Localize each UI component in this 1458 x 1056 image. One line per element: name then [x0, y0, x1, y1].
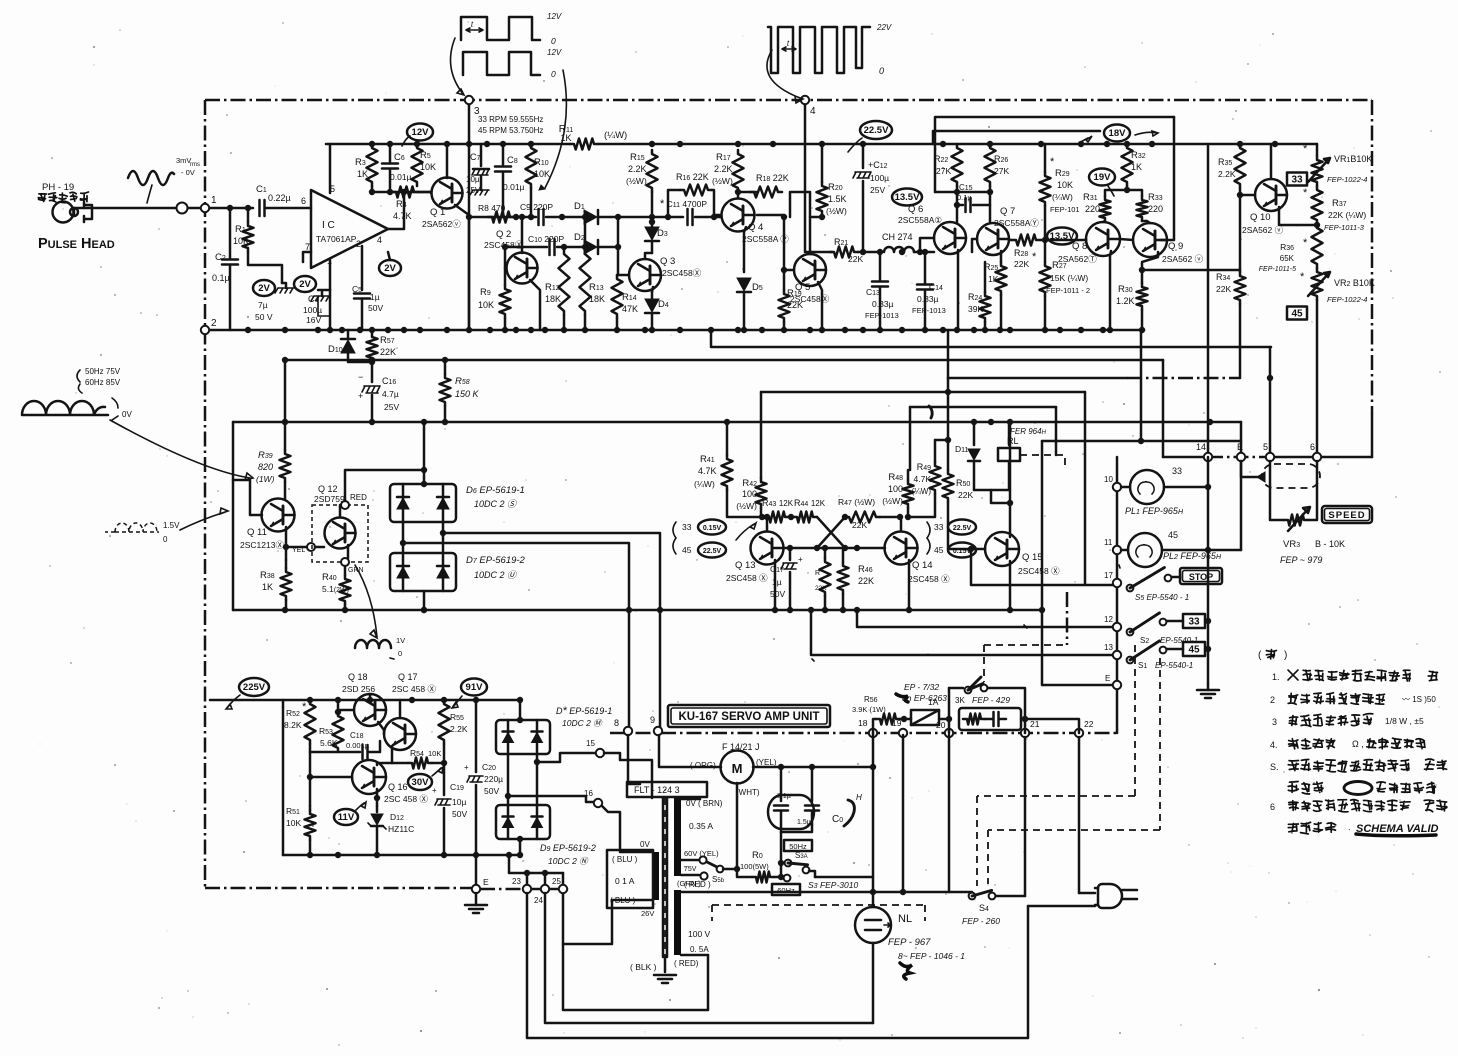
svg-text:12V: 12V [412, 127, 430, 138]
svg-text:+: + [358, 391, 363, 401]
potentiometer VR2 [1300, 268, 1375, 304]
wire co bottom [781, 825, 812, 832]
capacitor C8 [495, 144, 525, 217]
mains plug [1079, 884, 1137, 908]
wire node3 drop [468, 100, 471, 330]
svg-text:33: 33 [682, 522, 692, 532]
transformer primary winding [653, 852, 659, 900]
svg-text:FEP-1013: FEP-1013 [865, 311, 899, 320]
svg-text:SPEED: SPEED [1328, 510, 1365, 521]
wire bus y422 [233, 419, 1241, 425]
svg-text:22K (¼W): 22K (¼W) [1328, 210, 1366, 220]
transformer secondary1 winding [674, 798, 681, 876]
node 5 [1263, 442, 1274, 461]
svg-text:(¼W): (¼W) [1052, 192, 1073, 202]
svg-text:12V: 12V [547, 48, 562, 57]
svg-text:*: * [1300, 271, 1305, 283]
text PULSE HEAD [38, 236, 115, 252]
svg-text:2.2K: 2.2K [714, 164, 733, 174]
svg-text:PULSE HEAD: PULSE HEAD [38, 236, 115, 252]
wire IC output [388, 189, 407, 229]
resistor Ro [737, 850, 784, 883]
svg-text:100µ: 100µ [870, 173, 889, 183]
svg-text:*: * [1032, 251, 1037, 263]
svg-text:2SD 256: 2SD 256 [342, 684, 375, 694]
wire Q14 wiring [884, 517, 909, 610]
wire row2 [505, 214, 621, 275]
svg-text:FEP-1022-4: FEP-1022-4 [1327, 295, 1367, 304]
svg-text:R: R [815, 570, 820, 577]
wire chain-line right border [1371, 100, 1374, 457]
svg-text:60Hz: 60Hz [777, 886, 795, 895]
text S3 FEP-3010 [808, 880, 858, 890]
svg-text:TA7061AP: TA7061AP [316, 234, 357, 244]
wire NL bottom [872, 943, 875, 1023]
resistor R16 [665, 172, 714, 220]
svg-text:D* EP-5619-1: D* EP-5619-1 [556, 705, 612, 717]
svg-text:2.2K: 2.2K [1218, 169, 1236, 179]
resistor R1 [233, 205, 254, 252]
svg-text:220: 220 [1085, 204, 1100, 214]
svg-text:R16 22K: R16 22K [676, 172, 709, 182]
wire plug bottom [1028, 905, 1095, 908]
wire D6-D7 links [400, 522, 446, 613]
svg-text:Q 4: Q 4 [748, 222, 763, 233]
text note 1 [1272, 670, 1438, 682]
svg-text:45: 45 [1291, 309, 1303, 320]
capacitor C5 [352, 284, 383, 330]
wire y585 to node17 [971, 549, 1117, 585]
capacitor C19 electrolytic [432, 763, 467, 855]
svg-text:(½W): (½W) [626, 176, 647, 186]
diode D4 [645, 292, 669, 330]
svg-text:C9 220P: C9 220P [520, 202, 553, 212]
diode D10 [328, 330, 372, 362]
svg-text:(YEL): (YEL) [756, 758, 777, 767]
svg-text:25V: 25V [384, 402, 399, 412]
svg-text:Q 5: Q 5 [795, 282, 810, 293]
svg-text:4.: 4. [1270, 740, 1278, 750]
wire y873 link [509, 855, 563, 884]
svg-text:F 14/21 J: F 14/21 J [722, 742, 760, 752]
wire node row y457 [1163, 456, 1372, 459]
wire R39 to Q11 [284, 482, 287, 499]
svg-text:10K: 10K [534, 169, 550, 179]
bridge rectifier D8 [496, 700, 612, 754]
svg-text:65K: 65K [1280, 254, 1295, 263]
svg-text:0V: 0V [122, 410, 132, 419]
wire Q4 wiring [711, 189, 746, 272]
resistor R37 [1303, 186, 1366, 232]
resistor R19 [779, 214, 804, 330]
wire relay feed [974, 422, 1009, 445]
waveform pulse comb [768, 23, 892, 76]
svg-text:1µ: 1µ [772, 577, 782, 587]
svg-text:0. 5A: 0. 5A [690, 945, 709, 954]
svg-text:0.1µ: 0.1µ [212, 273, 230, 283]
wire S3 out [815, 876, 873, 879]
diode D5 [737, 278, 763, 330]
wire bottom rail of amp section [205, 329, 1144, 332]
svg-text:KU-167 SERVO AMP UNIT: KU-167 SERVO AMP UNIT [678, 711, 819, 723]
svg-text:C18: C18 [350, 731, 364, 740]
diode D1 [559, 201, 598, 224]
svg-text:R56: R56 [864, 695, 878, 704]
svg-text:Q 2: Q 2 [496, 229, 511, 240]
diode D11 [955, 444, 980, 490]
svg-text:〰 1S )50: 〰 1S )50 [1402, 695, 1436, 704]
svg-text:14: 14 [1196, 442, 1206, 452]
svg-text:Q 18: Q 18 [348, 672, 368, 682]
svg-text:R43 12K: R43 12K [762, 498, 794, 508]
transistor Q7 [977, 206, 1039, 255]
wire Q16 wiring [310, 760, 447, 806]
wire cap col to Ro [780, 863, 783, 877]
svg-text:3: 3 [1272, 717, 1277, 727]
wire primary taps [563, 852, 653, 944]
resistor R47 [838, 497, 903, 530]
svg-text:13.5V: 13.5V [895, 192, 920, 203]
capacitor C20 electrolytic [464, 700, 503, 855]
svg-text:39K: 39K [968, 304, 983, 314]
svg-text:Q 1: Q 1 [430, 207, 445, 218]
svg-text:18K: 18K [589, 294, 605, 304]
svg-text:24: 24 [534, 896, 543, 905]
svg-text:22.5V: 22.5V [864, 125, 889, 136]
capacitor C4 [303, 290, 330, 330]
boxed STOP [1180, 568, 1222, 584]
wire R3/C6/R5 bottoms [369, 186, 431, 195]
svg-text:−: − [358, 372, 363, 382]
lamp PL2 [1121, 530, 1241, 567]
node E bottom [1105, 674, 1121, 689]
svg-text:(WHT): (WHT) [736, 788, 760, 797]
wire right vertical x1174 [1160, 117, 1174, 240]
svg-text:E: E [1237, 442, 1243, 452]
svg-text:- 0V: - 0V [181, 168, 195, 177]
capacitor Co [768, 767, 843, 866]
node 12 [1104, 615, 1121, 631]
wire node23 drop [527, 893, 1028, 1038]
svg-text:FEP - 260: FEP - 260 [962, 916, 1000, 926]
svg-text:C10 220P: C10 220P [528, 234, 564, 244]
svg-text:150 K: 150 K [455, 389, 480, 399]
resistor R51 [286, 806, 316, 855]
node 16 [584, 789, 602, 807]
wire IC pin1 down [329, 260, 332, 290]
wire x1241 from E [1240, 461, 1243, 550]
resistor R34 [1216, 268, 1246, 378]
svg-text:2SC458 Ⓧ: 2SC458 Ⓧ [726, 573, 768, 583]
bridge rectifier D7 [390, 553, 526, 591]
svg-text:SCHEMA VALID: SCHEMA VALID [1356, 823, 1439, 835]
svg-text:( BLU ): ( BLU ) [612, 855, 638, 864]
wire Q1-e junction down [468, 215, 471, 330]
svg-text:1/8 W , ±5: 1/8 W , ±5 [1385, 716, 1424, 726]
text note 5 [1270, 759, 1447, 772]
boxed 33 [1287, 173, 1307, 186]
node 1 [201, 195, 217, 212]
wire Q14 base row [817, 545, 884, 551]
svg-text:12: 12 [1104, 615, 1113, 624]
motor M [690, 742, 777, 797]
svg-text:1.5V: 1.5V [163, 521, 180, 530]
capacitor C6 [382, 144, 412, 192]
svg-text:Q 7: Q 7 [1000, 206, 1015, 217]
transistor Q9 [1133, 223, 1204, 264]
svg-text:25: 25 [552, 877, 561, 886]
svg-text:2V: 2V [299, 279, 311, 290]
capacitor C12 electrolytic [853, 144, 889, 252]
wire Q15 wiring [985, 422, 1010, 610]
svg-text:100 V: 100 V [688, 929, 711, 939]
svg-text:22K: 22K [958, 490, 973, 500]
svg-text:(1W): (1W) [256, 474, 275, 484]
resistor R5 [412, 144, 437, 186]
wire Q18/Q17 wiring [335, 694, 400, 763]
svg-text:FEP-101: FEP-101 [1050, 205, 1080, 214]
node open circle [177, 203, 188, 214]
svg-text:0.1µ: 0.1µ [957, 193, 972, 202]
capacitor C13 [865, 249, 899, 330]
svg-text:R44 12K: R44 12K [794, 498, 826, 508]
svg-text:FEP-1011-5: FEP-1011-5 [1259, 266, 1296, 273]
svg-text:E: E [483, 877, 489, 887]
pulse head PH-19 [42, 182, 92, 223]
svg-text:45 RPM 53.750Hz: 45 RPM 53.750Hz [478, 126, 543, 135]
wire node16 to primary [602, 806, 652, 851]
svg-text:2.2K: 2.2K [450, 724, 468, 734]
node 4 [801, 96, 816, 117]
wire VR2 down to node6 [1316, 300, 1319, 457]
svg-text:25V: 25V [466, 186, 481, 195]
svg-text:18K: 18K [545, 294, 561, 304]
svg-text:VR2 B10K: VR2 B10K [1334, 278, 1375, 288]
voltage oval 2V a [253, 280, 275, 296]
svg-text:2SC558A Ⓟ: 2SC558A Ⓟ [742, 234, 789, 244]
resistor R30 [1116, 283, 1148, 330]
wire chain-line top border [205, 99, 1372, 102]
svg-text:17: 17 [1104, 571, 1113, 580]
transistor Q12 [314, 484, 356, 549]
wire x910 drop [909, 407, 912, 470]
transistor Q4 [722, 199, 790, 245]
wire y441 link [1042, 422, 1241, 457]
wire D6 out y533 [443, 533, 660, 610]
svg-text:45: 45 [682, 545, 692, 555]
svg-text:2SC558A①: 2SC558A① [898, 215, 942, 225]
wire x1207 ground drop [1207, 457, 1210, 684]
svg-text:100(5W): 100(5W) [740, 862, 769, 871]
svg-text:33: 33 [934, 522, 944, 532]
svg-text:1K: 1K [988, 274, 999, 284]
svg-text:7µ: 7µ [258, 300, 268, 310]
node 14 [1196, 442, 1212, 461]
node 9 [650, 715, 662, 735]
svg-text:PL2 FEP-965H: PL2 FEP-965H [1163, 551, 1222, 561]
transformer secondary2 winding [674, 890, 681, 955]
svg-text:(¼W): (¼W) [694, 479, 715, 489]
svg-text:FEP-1013: FEP-1013 [912, 306, 946, 315]
wire x1270 drop [1267, 347, 1273, 457]
svg-text:22: 22 [1084, 719, 1094, 729]
wire connector stub [1241, 461, 1265, 482]
wire IC pin2 down [361, 246, 364, 290]
resistor R57 [367, 333, 397, 365]
voltage oval 11V [334, 802, 366, 825]
resistor R46 [838, 548, 849, 610]
speckle marks [390, 406, 1120, 661]
wire Q1 base [430, 192, 433, 193]
svg-text:100µ: 100µ [303, 305, 322, 315]
svg-text:33: 33 [1172, 466, 1182, 476]
svg-text:Q 16: Q 16 [388, 782, 408, 792]
svg-text:50Hz 75V: 50Hz 75V [85, 367, 121, 376]
svg-text:6: 6 [1310, 442, 1315, 452]
capacitor C10 [528, 234, 564, 255]
svg-text:45: 45 [1188, 645, 1200, 656]
svg-text:Q 14: Q 14 [912, 560, 933, 571]
svg-text:10K: 10K [420, 162, 436, 172]
diode D2 [574, 232, 598, 254]
text notes header [1258, 650, 1287, 661]
wire x948 riser [947, 330, 950, 378]
voltage oval 225V [226, 678, 269, 709]
svg-text:60Hz 85V: 60Hz 85V [85, 378, 121, 387]
svg-text:0.15V: 0.15V [703, 525, 722, 532]
text pulse head katakana [38, 192, 88, 203]
wire D9 to node16 [505, 793, 594, 802]
voltage oval 12V [402, 124, 433, 147]
node 11 [1104, 538, 1121, 554]
svg-text:5: 5 [1263, 442, 1268, 452]
text note 4 [1270, 738, 1425, 750]
resistor R8 [478, 203, 519, 223]
svg-text:820: 820 [258, 462, 273, 472]
resistor R50 [943, 378, 986, 552]
svg-text:NL: NL [898, 913, 912, 925]
resistor R53 [319, 700, 344, 752]
node 8 [614, 718, 632, 735]
svg-text:10: 10 [1104, 475, 1113, 484]
capacitor C16 electrolytic [358, 362, 399, 422]
svg-text:0: 0 [398, 649, 402, 658]
svg-text:22K: 22K [848, 254, 863, 264]
resistor R9 [478, 268, 511, 330]
resistor R22 [934, 144, 963, 186]
svg-text:8.2K: 8.2K [284, 720, 302, 730]
wire IC pin7 stub [303, 252, 311, 262]
capacitor C1 [256, 184, 291, 216]
svg-text:1V: 1V [396, 636, 405, 645]
wire humps to Q11 curve [110, 420, 253, 480]
resistor R24 [968, 262, 991, 330]
svg-text:FLT - 124 3: FLT - 124 3 [634, 785, 680, 795]
voltage oval 30V [408, 767, 443, 790]
svg-text:S.: S. [1270, 762, 1279, 772]
resistor R45 [815, 545, 831, 610]
node 6 [1310, 442, 1321, 461]
svg-text:50V: 50V [368, 303, 383, 313]
resistor R21 [830, 237, 880, 264]
svg-text:6: 6 [301, 196, 306, 206]
wire node4 drop [805, 100, 832, 252]
svg-text:0V: 0V [640, 840, 650, 849]
voltage oval 2V c [379, 252, 401, 276]
capacitor C14 [912, 249, 946, 330]
svg-text:YEL: YEL [292, 547, 305, 554]
svg-text:8~ FEP - 1046 - 1: 8~ FEP - 1046 - 1 [898, 951, 965, 961]
svg-text:22K: 22K [815, 585, 827, 592]
wire Q3 wiring [617, 253, 653, 292]
svg-text:8: 8 [614, 718, 619, 728]
svg-text:2.2K: 2.2K [628, 164, 647, 174]
wire D8-D9 mid links [508, 754, 537, 805]
wire Q1 collector up [446, 144, 449, 178]
wire Q11 wiring [233, 480, 289, 560]
svg-text:75V: 75V [684, 866, 697, 873]
text note 6 [1270, 800, 1447, 812]
svg-text:S5 EP-5540 - 1: S5 EP-5540 - 1 [1135, 593, 1189, 602]
resistor R41 [694, 422, 762, 517]
junction dots on top rail [369, 141, 1278, 147]
svg-text:3.9K (1W): 3.9K (1W) [852, 705, 886, 714]
node 20 [936, 720, 953, 737]
wire Q12 emitter GRN [341, 545, 364, 575]
svg-text:1K: 1K [1131, 162, 1142, 172]
wire signal row [469, 216, 714, 219]
relay RL [998, 436, 1065, 490]
wire Q7 wiring [972, 186, 1001, 262]
boxed 50Hz [784, 840, 812, 851]
neon lamp NL [855, 907, 965, 979]
svg-text:2V: 2V [384, 263, 396, 274]
svg-text:100: 100 [888, 484, 903, 494]
wire IC pin5 to rail [329, 144, 332, 193]
transformer core [663, 798, 667, 957]
dashed linkage S5 [984, 592, 1067, 682]
svg-text:10K: 10K [478, 300, 494, 310]
wire x1117 column [1116, 457, 1119, 733]
svg-text:22.5V: 22.5V [703, 548, 722, 555]
wire sec2 top to S4 [708, 889, 972, 895]
transformer sec1 taps [677, 799, 723, 888]
node 2 [201, 318, 217, 334]
resistor R52 [284, 700, 316, 744]
svg-text:33: 33 [1188, 617, 1200, 628]
resistor R35 [1218, 144, 1246, 188]
svg-text:21: 21 [1030, 719, 1040, 729]
svg-text:50V: 50V [452, 809, 467, 819]
text 7m 50V [255, 300, 273, 322]
zener diode D12 [368, 806, 414, 855]
svg-text:R18 22K: R18 22K [756, 173, 789, 183]
inductor CH274 [882, 232, 934, 255]
svg-text:.: . [1348, 822, 1351, 832]
svg-text:47K: 47K [622, 304, 638, 314]
voltage oval 2V b [294, 276, 316, 292]
svg-text:S1: S1 [1138, 661, 1147, 670]
ground at E [465, 893, 487, 913]
node E left [472, 877, 489, 893]
svg-text:0 1 A: 0 1 A [615, 876, 635, 886]
svg-text:2SC1213Ⓧ: 2SC1213Ⓧ [240, 540, 284, 550]
svg-text:2SC558AⓎ: 2SC558AⓎ [994, 218, 1039, 228]
svg-text:4: 4 [377, 235, 382, 245]
voltage oval 13.5V b [1047, 228, 1077, 245]
svg-text:18V: 18V [1109, 128, 1127, 139]
svg-text:E: E [1105, 674, 1110, 683]
